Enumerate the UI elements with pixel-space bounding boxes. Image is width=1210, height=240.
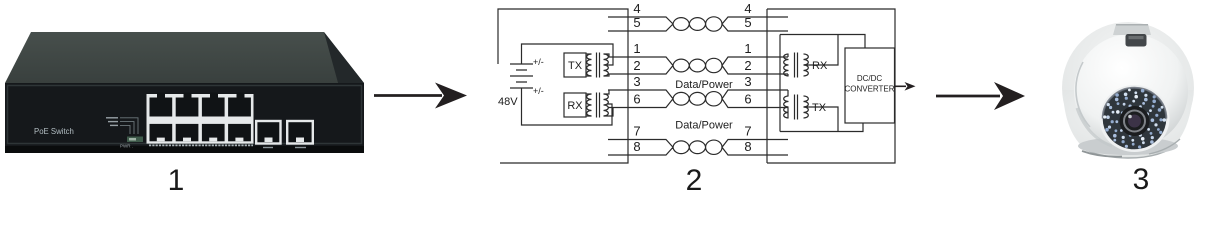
svg-text:RX: RX <box>567 100 583 112</box>
svg-text:7: 7 <box>744 124 751 139</box>
svg-text:3: 3 <box>1133 163 1150 193</box>
svg-text:1: 1 <box>168 164 185 193</box>
svg-text:6: 6 <box>633 92 640 107</box>
svg-text:DC/DC: DC/DC <box>857 74 883 83</box>
svg-text:7: 7 <box>633 124 640 139</box>
svg-text:PoE Switch: PoE Switch <box>34 127 74 136</box>
svg-text:1: 1 <box>633 41 640 56</box>
svg-text:Data/Power: Data/Power <box>675 79 733 91</box>
svg-text:+/-: +/- <box>533 86 544 96</box>
svg-text:2: 2 <box>744 58 751 73</box>
svg-text:8: 8 <box>633 139 640 154</box>
svg-text:3: 3 <box>744 74 751 89</box>
svg-text:PWR .: PWR . <box>120 144 133 149</box>
svg-text:5: 5 <box>633 15 640 30</box>
svg-text:5: 5 <box>744 15 751 30</box>
svg-text:RX: RX <box>812 60 828 72</box>
svg-text:2: 2 <box>686 164 703 193</box>
svg-text:6: 6 <box>744 92 751 107</box>
svg-text:CONVERTER: CONVERTER <box>844 85 894 94</box>
svg-text:3: 3 <box>633 74 640 89</box>
svg-text:TX: TX <box>812 102 827 114</box>
svg-text:8: 8 <box>744 139 751 154</box>
svg-text:Data/Power: Data/Power <box>675 120 733 132</box>
svg-text:48V: 48V <box>498 96 518 108</box>
svg-text:2: 2 <box>633 58 640 73</box>
svg-text:1: 1 <box>744 41 751 56</box>
svg-text:TX: TX <box>568 60 583 72</box>
svg-text:4: 4 <box>744 1 751 16</box>
svg-text:4: 4 <box>633 1 640 16</box>
svg-text:+/-: +/- <box>533 57 544 67</box>
